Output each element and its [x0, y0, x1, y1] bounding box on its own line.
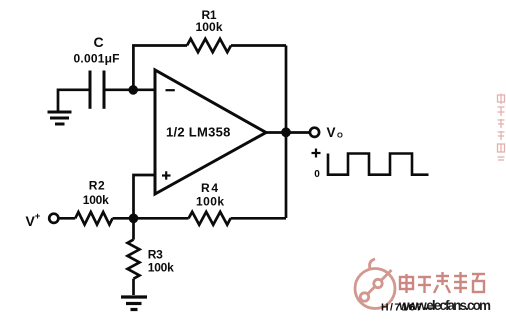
wire V+ terminal to R2 — [59, 217, 76, 220]
watermark logo circle — [355, 259, 395, 309]
wire node B down to R3 — [132, 218, 135, 239]
node B junction dot — [129, 214, 139, 224]
watermark chinese characters — [400, 272, 485, 293]
wire R4 to right rail — [231, 217, 286, 220]
resistor R3 — [128, 240, 140, 279]
svg-text:C: C — [93, 34, 103, 50]
wire node B up to op-amp plus input — [134, 175, 156, 218]
square wave output waveform — [328, 154, 429, 175]
svg-text:100k: 100k — [83, 193, 109, 207]
op-amp plus input sign — [162, 171, 171, 179]
node A junction dot — [128, 85, 138, 95]
wire node B to R4 — [134, 217, 189, 220]
wire right rail vertical — [285, 46, 288, 219]
wire capacitor to node A — [104, 88, 155, 91]
resistor R2 — [75, 212, 112, 225]
svg-text:R3: R3 — [148, 247, 163, 261]
svg-text:0: 0 — [314, 169, 320, 180]
resistor R4 — [189, 212, 231, 225]
svg-text:O: O — [337, 131, 343, 140]
wire top feedback from node A up and across to R1 — [133, 46, 187, 90]
svg-text:0.001μF: 0.001μF — [74, 52, 120, 66]
svg-text:+: + — [35, 211, 41, 222]
svg-text:100k: 100k — [196, 20, 223, 34]
svg-text:1/2 LM358: 1/2 LM358 — [166, 125, 230, 140]
capacitor C — [90, 71, 104, 109]
svg-text:V: V — [327, 125, 336, 140]
wire R2 to node B — [113, 217, 134, 220]
op-amp U1 triangle — [155, 70, 266, 194]
svg-text:R4: R4 — [201, 181, 218, 195]
wire R1 to right rail — [231, 44, 286, 47]
ground bottom — [121, 297, 147, 310]
right edge vertical watermark — [498, 94, 505, 161]
V+ input terminal circle — [49, 214, 58, 223]
wire op-amp output to terminal — [266, 131, 310, 134]
output node junction dot — [281, 127, 291, 137]
ground left — [48, 112, 72, 124]
wire R3 to ground — [132, 279, 135, 295]
svg-text:R2: R2 — [89, 178, 105, 192]
square wave plus label — [312, 149, 321, 158]
svg-text:100k: 100k — [196, 194, 224, 208]
wire left ground to capacitor — [58, 90, 90, 111]
output terminal circle — [310, 128, 319, 137]
op-amp minus input sign — [166, 89, 175, 91]
svg-text:100k: 100k — [148, 260, 174, 274]
resistor R1 — [187, 39, 231, 52]
